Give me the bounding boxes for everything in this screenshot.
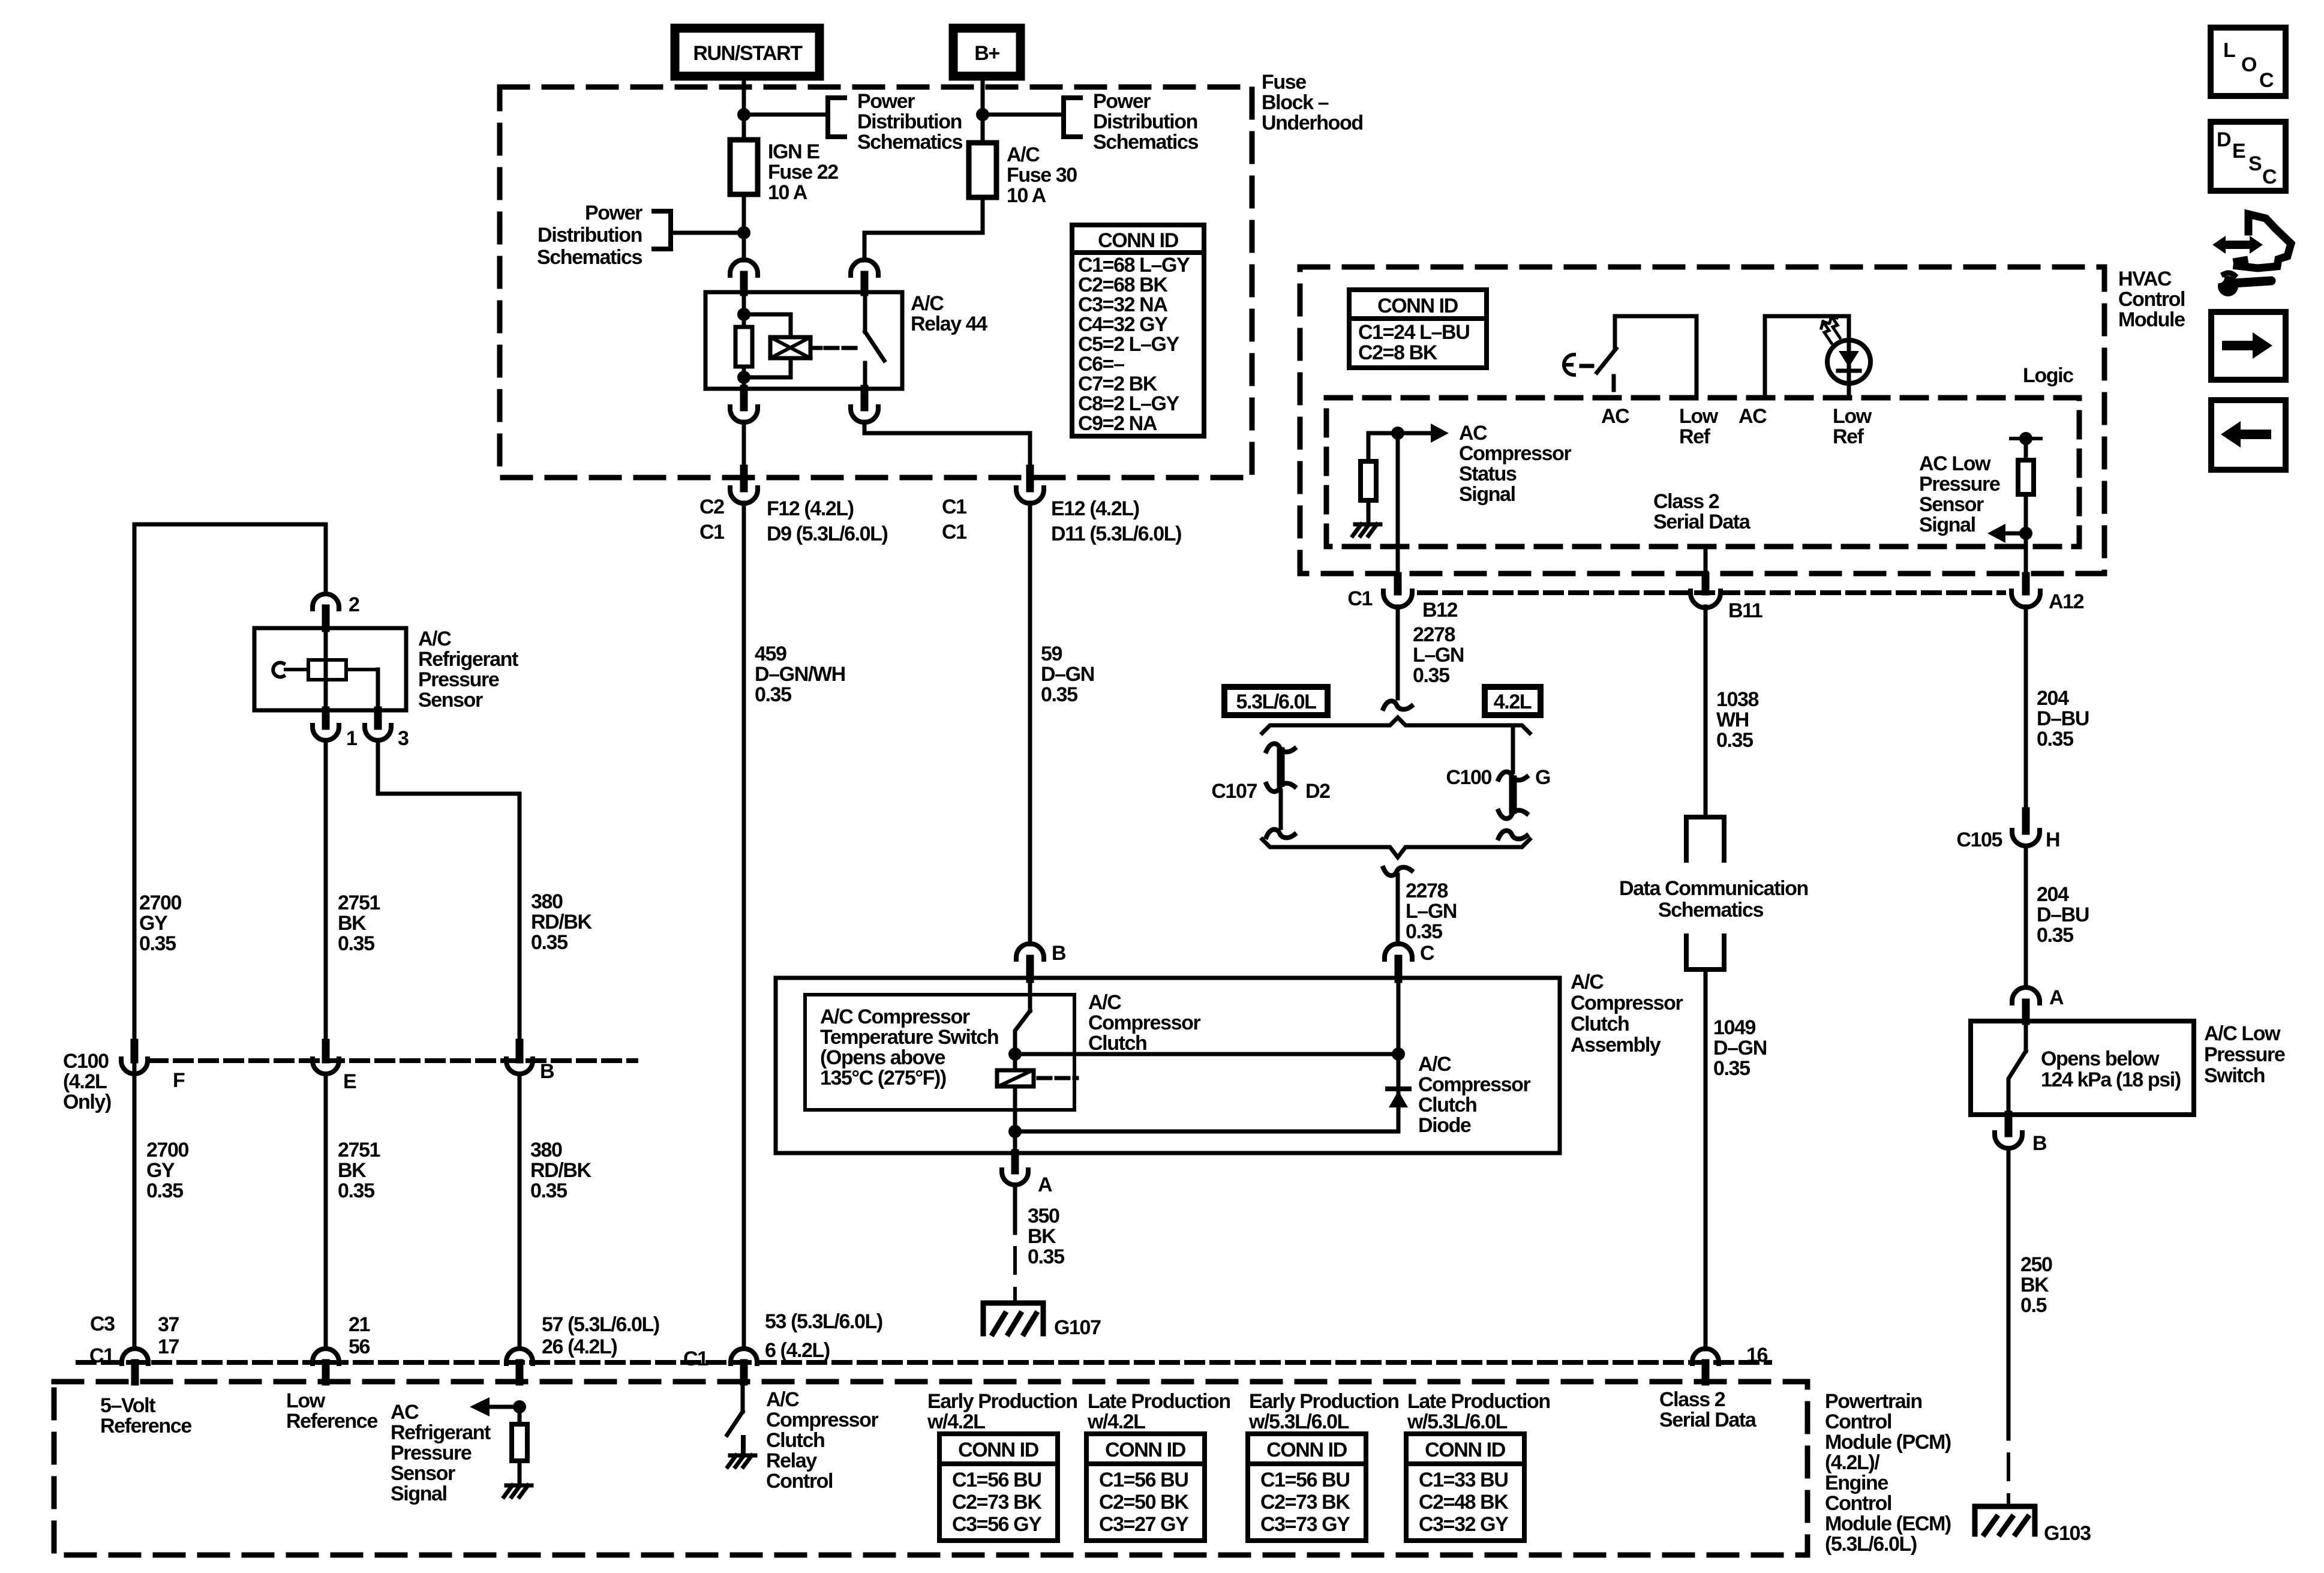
svg-text:Compressor: Compressor [766,1409,878,1431]
conn id table HVAC [1349,290,1487,368]
svg-text:Class 2: Class 2 [1659,1388,1725,1411]
junction dot left feed [737,226,750,239]
svg-text:Low: Low [1679,405,1719,428]
svg-text:Class 2: Class 2 [1653,490,1719,513]
fuse IGN E Fuse 22 [730,140,758,194]
PCM dashed box [54,1382,1807,1555]
svg-text:B: B [540,1060,554,1083]
svg-text:F: F [173,1069,185,1092]
svg-text:Sensor: Sensor [418,689,483,712]
svg-text:0.35: 0.35 [1413,664,1449,687]
svg-text:BK: BK [1028,1225,1056,1248]
status pull resistor branch [1368,433,1398,461]
svg-text:S: S [2248,152,2262,175]
svg-text:A/C Low: A/C Low [2204,1022,2281,1045]
svg-text:0.35: 0.35 [139,932,176,955]
svg-text:E: E [343,1070,356,1093]
connector C100 B [516,1043,524,1059]
connector relay pin 87 [861,389,869,407]
wire 2278 lower [1396,875,1400,944]
svg-text:124 kPa (18 psi): 124 kPa (18 psi) [2041,1068,2181,1091]
wire 459 D-GN/WH [742,503,746,1349]
svg-text:2278: 2278 [1413,623,1455,646]
svg-text:C100: C100 [63,1050,109,1073]
icon forward arrow box [2211,312,2286,380]
svg-text:C3=56 GY: C3=56 GY [952,1513,1042,1536]
svg-text:C1=24 L–BU: C1=24 L–BU [1358,321,1469,344]
svg-text:57 (5.3L/6.0L): 57 (5.3L/6.0L) [542,1313,659,1336]
svg-text:RD/BK: RD/BK [531,911,593,933]
svg-text:(Opens above: (Opens above [820,1046,945,1069]
connector A (pressure switch) [2012,987,2040,1003]
svg-text:O: O [2241,53,2257,76]
svg-text:D: D [2217,128,2231,151]
AC compressor status node [1391,427,1404,440]
svg-text:L–GN: L–GN [1413,644,1464,667]
svg-text:GY: GY [146,1159,175,1182]
svg-text:C2=48 BK: C2=48 BK [1419,1491,1509,1514]
svg-text:Pressure: Pressure [1919,473,2000,496]
svg-text:C2=8 BK: C2=8 BK [1358,341,1438,364]
junction dot C wire [1392,1047,1405,1061]
svg-text:Assembly: Assembly [1571,1034,1661,1056]
logic dashed box [1326,398,2079,547]
svg-text:Distribution: Distribution [538,224,642,247]
connector relay pin 30 [851,260,878,275]
svg-text:10 A: 10 A [1007,184,1046,207]
svg-text:Signal: Signal [391,1482,447,1505]
svg-text:Fuse: Fuse [1262,71,1306,94]
svg-text:IGN E: IGN E [768,140,819,163]
svg-text:B+: B+ [974,42,999,65]
svg-text:Ref: Ref [1833,425,1864,448]
svg-text:56: 56 [349,1335,370,1358]
svg-text:204: 204 [2037,687,2069,710]
LED diode triangle [1839,351,1859,367]
svg-text:D2: D2 [1305,780,1330,803]
connector PCM 21/56 [313,1349,339,1364]
svg-text:A/C: A/C [418,628,451,650]
svg-text:Reference: Reference [286,1410,377,1433]
svg-text:Module (PCM): Module (PCM) [1825,1431,1951,1454]
svg-text:GY: GY [139,912,168,935]
wire RUN/START down [742,76,746,140]
svg-text:Data Communication: Data Communication [1619,877,1808,900]
icon back arrow box [2211,400,2286,470]
wire 2751 BK upper [324,740,328,1044]
svg-text:380: 380 [530,1139,562,1161]
svg-text:Switch: Switch [2204,1064,2265,1087]
svg-text:Module (ECM): Module (ECM) [1825,1512,1951,1535]
svg-text:L: L [2223,39,2235,62]
svg-text:Schematics: Schematics [857,131,962,154]
svg-text:4.2L: 4.2L [1494,691,1532,713]
relay switch blade [865,332,884,361]
wire 59 D-GN [1028,503,1032,944]
svg-text:Sensor: Sensor [1919,493,1984,516]
power node B+ [953,28,1020,76]
svg-text:10 A: 10 A [768,181,807,204]
svg-text:Relay: Relay [766,1449,817,1472]
svg-text:BK: BK [338,912,367,935]
wire start curl (2278 below split) [1383,867,1412,876]
connector A12 [2022,576,2030,592]
svg-text:(4.2L: (4.2L [63,1070,107,1093]
connector row C100 [150,1058,636,1063]
relay solenoid element [770,337,810,358]
wire 204 lower [2024,846,2028,987]
svg-text:G103: G103 [2044,1522,2091,1545]
bracket power distribution (right) [1064,98,1080,137]
svg-text:Ref: Ref [1679,425,1711,448]
switch blade [1597,349,1616,373]
svg-text:CONN ID: CONN ID [958,1439,1039,1461]
svg-text:Control: Control [1825,1410,1891,1433]
svg-text:Low: Low [286,1389,326,1412]
connector sensor pin 1 [322,710,330,726]
svg-text:D9 (5.3L/6.0L): D9 (5.3L/6.0L) [767,523,888,545]
svg-text:0.35: 0.35 [1713,1057,1750,1080]
connector PCM clutch relay control [731,1349,757,1364]
relay coil wire left pin [742,292,746,327]
connector relay pin 86 [730,260,758,275]
clutch coil element [1013,1054,1017,1070]
connector row PCM [78,1360,1770,1365]
wire fuse30 to relay switch [864,197,983,260]
HVAC control module dashed box [1300,267,2104,574]
svg-text:G: G [1535,766,1550,789]
svg-text:C1: C1 [942,521,966,544]
connector B (assembly) [1016,944,1044,959]
svg-text:C3=27 GY: C3=27 GY [1099,1513,1189,1536]
svg-text:C2=73 BK: C2=73 BK [952,1491,1042,1514]
connector C105 H [2022,811,2030,831]
svg-text:D–GN: D–GN [1713,1037,1767,1059]
svg-text:C100: C100 [1446,766,1491,789]
svg-text:D–GN: D–GN [1041,663,1094,686]
connector PCM 16 [1692,1349,1719,1364]
svg-text:A/C: A/C [1088,991,1121,1014]
svg-text:Block –: Block – [1262,91,1329,114]
svg-text:C1=33 BU: C1=33 BU [1419,1469,1508,1491]
power node RUN/START [675,28,819,76]
svg-text:C2: C2 [699,496,724,518]
svg-text:0.35: 0.35 [530,1179,567,1202]
wire 1049 D-GN [1704,969,1708,1349]
connector sensor pin 2 [313,594,339,609]
connector C (assembly) [1385,944,1412,959]
fuse block underhood dashed box [500,87,1252,478]
svg-text:C1=56 BU: C1=56 BU [1099,1469,1188,1491]
svg-text:(5.3L/6.0L): (5.3L/6.0L) [1825,1533,1917,1556]
svg-text:A: A [2049,986,2064,1009]
AC request switch [1615,316,1697,398]
svg-text:Clutch: Clutch [766,1429,824,1452]
svg-text:Distribution: Distribution [857,110,962,133]
svg-text:C3=73 GY: C3=73 GY [1260,1513,1350,1536]
wire 5v ref top run [134,524,326,1349]
svg-text:204: 204 [2037,883,2069,906]
svg-text:C1=56 BU: C1=56 BU [952,1469,1041,1491]
svg-text:A/C: A/C [1571,971,1604,993]
svg-text:L–GN: L–GN [1406,900,1457,923]
wire to left bracket [671,231,744,235]
data communication jump bracket top [1686,817,1724,860]
switch lower contact stub [1612,376,1616,390]
connector sensor pin 3 [374,710,382,726]
wire 250 BK [2007,1148,2011,1439]
svg-text:Compressor: Compressor [1418,1073,1530,1096]
svg-text:Distribution: Distribution [1093,110,1197,133]
connector B11 [1702,576,1710,592]
svg-text:A/C: A/C [766,1388,799,1411]
svg-text:Clutch: Clutch [1571,1013,1629,1035]
svg-text:0.35: 0.35 [146,1179,183,1202]
svg-text:D–BU: D–BU [2037,903,2089,926]
svg-text:Pressure: Pressure [391,1442,472,1464]
wire 204 upper [2024,607,2028,812]
temp switch blade [1015,1011,1030,1054]
svg-text:C1: C1 [89,1344,114,1367]
svg-text:Power: Power [1093,90,1151,113]
connector row dashes HVAC [1419,590,2004,595]
sensor transducer element [308,660,346,680]
ground G107 [983,1303,1043,1334]
svg-text:Clutch: Clutch [1418,1094,1476,1116]
inline connector fuse block right [1026,469,1034,488]
svg-text:Serial Data: Serial Data [1659,1409,1757,1431]
svg-text:C3=32 GY: C3=32 GY [1419,1513,1509,1536]
svg-text:D–BU: D–BU [2037,707,2089,730]
resistor (pcm) [518,1407,522,1424]
svg-text:Signal: Signal [1459,483,1515,506]
svg-text:0.35: 0.35 [338,932,374,955]
svg-text:Late Production: Late Production [1407,1390,1550,1413]
svg-text:Schematics: Schematics [1093,131,1198,154]
svg-text:37: 37 [158,1313,179,1336]
svg-text:H: H [2046,828,2059,851]
svg-text:D11 (5.3L/6.0L): D11 (5.3L/6.0L) [1051,523,1181,545]
svg-text:(4.2L)/: (4.2L)/ [1825,1451,1880,1474]
svg-text:C2=73 BK: C2=73 BK [1260,1491,1350,1514]
connector C100 F [131,1043,139,1059]
svg-text:2: 2 [349,593,359,616]
svg-text:AC: AC [391,1401,419,1424]
svg-text:1049: 1049 [1713,1016,1756,1039]
junction dot coil bottom [1008,1125,1022,1138]
svg-text:0.35: 0.35 [1716,729,1753,752]
svg-text:CONN ID: CONN ID [1105,1439,1186,1461]
svg-text:Fuse 22: Fuse 22 [768,161,838,184]
svg-text:Control: Control [2118,288,2185,311]
svg-text:5–Volt: 5–Volt [100,1394,155,1417]
svg-text:C: C [2262,166,2277,188]
ground (relay control) [730,1454,755,1458]
svg-text:59: 59 [1041,643,1062,665]
svg-text:Refrigerant: Refrigerant [391,1421,491,1444]
svg-text:Underhood: Underhood [1262,112,1363,134]
connector C107 D2 [1266,744,1295,752]
sensor signal arrow [513,1400,526,1413]
svg-text:0.35: 0.35 [1406,920,1442,943]
svg-text:Power: Power [857,90,915,113]
svg-text:Early Production: Early Production [927,1390,1077,1413]
wire B+ down [981,76,985,143]
svg-text:F12 (4.2L): F12 (4.2L) [767,497,854,520]
svg-text:Pressure: Pressure [2204,1043,2285,1066]
svg-text:Clutch: Clutch [1088,1032,1146,1055]
split brace bottom [1262,839,1530,857]
wire 1038 WH [1704,607,1708,816]
coil actuation dashes [1038,1076,1077,1080]
svg-text:2751: 2751 [338,891,380,914]
fuse A/C Fuse 30 [969,143,996,197]
svg-text:Engine: Engine [1825,1472,1888,1494]
svg-text:AC: AC [1601,405,1629,428]
svg-text:Diode: Diode [1418,1114,1471,1137]
svg-text:G107: G107 [1054,1316,1101,1339]
svg-text:D–GN/WH: D–GN/WH [755,663,845,686]
relay control switch [741,1382,745,1412]
svg-text:Power: Power [585,202,642,224]
svg-text:0.35: 0.35 [2037,728,2073,751]
svg-text:26 (4.2L): 26 (4.2L) [542,1335,617,1358]
svg-text:CONN ID: CONN ID [1266,1439,1347,1461]
wire relay87 jog [864,422,1030,470]
svg-text:C9=2 NA: C9=2 NA [1078,412,1157,435]
svg-text:6 (4.2L): 6 (4.2L) [765,1339,830,1362]
connector C100 E [322,1043,330,1059]
svg-text:A: A [1038,1173,1052,1196]
svg-text:Compressor: Compressor [1459,442,1571,465]
svg-text:BK: BK [2020,1274,2049,1296]
svg-text:Control: Control [1825,1492,1891,1515]
temperature switch box [805,995,1074,1110]
svg-text:Low: Low [1833,405,1872,428]
svg-text:2751: 2751 [338,1139,380,1161]
svg-text:0.35: 0.35 [1041,683,1077,706]
svg-text:2278: 2278 [1406,879,1448,902]
wire 350 BK [1013,1185,1017,1233]
wire end curl (2278 above split) [1383,701,1412,710]
ground (logic internal) [1355,523,1380,527]
svg-text:B11: B11 [1728,599,1762,622]
svg-text:C3: C3 [90,1313,115,1335]
junction dot coil top [737,308,750,321]
svg-text:Logic: Logic [2023,364,2073,387]
svg-text:459: 459 [755,643,786,665]
svg-text:Compressor: Compressor [1571,992,1683,1014]
svg-text:250: 250 [2020,1253,2052,1276]
indicator LED branch [1765,316,1849,398]
svg-text:C: C [1420,942,1434,965]
icon component locator (arrows + wrench) [2224,241,2251,249]
svg-text:AC: AC [1459,422,1487,445]
svg-text:WH: WH [1716,709,1749,731]
conn id table fuse block [1072,225,1204,436]
svg-text:1038: 1038 [1716,688,1759,711]
svg-text:C1: C1 [942,496,966,518]
wire B12 inside module [1396,433,1400,577]
svg-text:A/C: A/C [1007,143,1040,166]
resistor (status) [1361,461,1376,500]
AC low pressure sensor signal node [2011,437,2041,440]
svg-text:Serial Data: Serial Data [1653,511,1751,533]
connector A (assembly) [1011,1153,1019,1170]
svg-text:0.35: 0.35 [1028,1245,1064,1268]
svg-text:CONN ID: CONN ID [1377,295,1458,317]
svg-text:B12: B12 [1422,599,1458,622]
svg-text:Only): Only) [63,1091,111,1113]
svg-text:135°C (275°F)): 135°C (275°F)) [820,1067,946,1089]
connector B (pressure switch) [2005,1115,2013,1133]
svg-text:A/C: A/C [1418,1053,1451,1076]
svg-text:B: B [2032,1132,2047,1155]
svg-text:Pressure: Pressure [418,668,499,691]
wire coil parallel branch [744,314,791,337]
ground G103 [1975,1506,2035,1534]
wire fuse22 to relay [742,194,746,260]
junction dot B+ feed [976,108,989,121]
svg-text:Temperature Switch: Temperature Switch [820,1026,998,1049]
bracket power distribution (right of RUN wire) [828,98,845,137]
junction dot run/start feed [737,108,750,121]
wire 2278 upper [1396,607,1400,698]
relay A/C Relay 44 box [705,292,902,389]
inline connector fuse block left [740,469,748,488]
wire across to diode [1015,1052,1398,1056]
svg-text:Powertrain: Powertrain [1825,1390,1922,1413]
svg-text:C1: C1 [683,1347,708,1370]
svg-text:Late Production: Late Production [1088,1390,1230,1413]
svg-text:Control: Control [766,1470,833,1493]
svg-text:2700: 2700 [139,891,182,914]
svg-text:350: 350 [1028,1205,1059,1227]
svg-text:2700: 2700 [146,1139,189,1161]
wire to pin A [1013,1131,1017,1153]
svg-text:C1=56 BU: C1=56 BU [1260,1469,1350,1491]
svg-text:CONN ID: CONN ID [1098,229,1179,252]
ground (pcm internal) [506,1484,532,1488]
svg-text:Fuse 30: Fuse 30 [1007,164,1077,187]
svg-text:B: B [1052,942,1066,965]
diode A/C compressor clutch diode [1388,1086,1409,1091]
A/C low pressure switch box [1971,1021,2194,1115]
svg-text:w/4.2L: w/4.2L [927,1410,985,1433]
svg-text:21: 21 [349,1313,370,1336]
data communication jump bracket bottom [1686,936,1724,969]
wire 380 RD/BK upper [378,740,520,1044]
switch actuator hook [1564,355,1574,375]
svg-text:0.5: 0.5 [2020,1294,2047,1317]
svg-text:w/4.2L: w/4.2L [1087,1410,1145,1433]
LED circle [1827,340,1870,383]
svg-text:C2=50 BK: C2=50 BK [1099,1491,1189,1514]
svg-text:17: 17 [158,1335,179,1358]
svg-text:A/C Compressor: A/C Compressor [820,1005,970,1028]
junction dot arrow [2019,527,2032,540]
wire 2751 lower [324,1074,328,1349]
wire diode bottom across [1015,1130,1398,1134]
option box 5.3L/6.0L [1224,687,1328,715]
svg-text:Module: Module [2118,308,2185,331]
svg-text:5.3L/6.0L: 5.3L/6.0L [1236,691,1317,713]
wire 380 lower [518,1074,522,1349]
svg-text:0.35: 0.35 [338,1179,374,1202]
svg-text:0.35: 0.35 [531,931,568,954]
wire C branch down [1397,978,1401,1054]
svg-text:E: E [2232,140,2245,163]
